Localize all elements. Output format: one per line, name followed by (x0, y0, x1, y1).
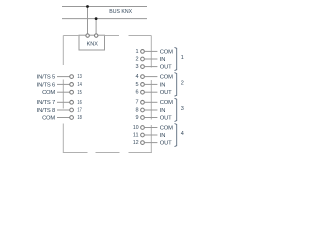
svg-text:OUT: OUT (160, 115, 172, 121)
svg-text:1: 1 (181, 55, 184, 61)
svg-text:COM: COM (160, 49, 173, 55)
svg-text:13: 13 (77, 74, 81, 80)
svg-text:IN: IN (160, 133, 165, 139)
svg-text:1: 1 (136, 49, 139, 55)
svg-text:3: 3 (181, 106, 184, 112)
svg-text:COM: COM (160, 125, 173, 131)
svg-text:9: 9 (136, 115, 139, 121)
svg-text:6: 6 (136, 90, 139, 96)
svg-text:OUT: OUT (160, 90, 172, 96)
svg-text:IN/TS 8: IN/TS 8 (37, 108, 55, 114)
svg-text:OUT: OUT (160, 141, 172, 147)
svg-text:COM: COM (160, 75, 173, 81)
svg-text:COM: COM (42, 115, 55, 121)
svg-text:COM: COM (42, 90, 55, 96)
svg-text:8: 8 (136, 107, 139, 113)
svg-text:IN/TS 6: IN/TS 6 (37, 82, 55, 88)
svg-text:4: 4 (136, 74, 139, 80)
svg-text:11: 11 (133, 132, 139, 138)
svg-text:17: 17 (77, 108, 81, 114)
svg-text:IN/TS 7: IN/TS 7 (37, 100, 55, 106)
svg-text:IN: IN (160, 82, 165, 88)
svg-text:7: 7 (136, 100, 139, 106)
svg-text:16: 16 (77, 100, 81, 106)
svg-text:OUT: OUT (160, 65, 172, 71)
svg-text:12: 12 (133, 140, 139, 146)
svg-text:2: 2 (181, 80, 184, 86)
svg-text:BUS KNX: BUS KNX (109, 9, 132, 15)
svg-text:14: 14 (77, 82, 81, 88)
svg-text:4: 4 (181, 131, 184, 137)
svg-text:IN: IN (160, 108, 165, 114)
svg-text:IN/TS 5: IN/TS 5 (37, 75, 55, 81)
svg-text:18: 18 (77, 115, 81, 121)
svg-text:KNX: KNX (87, 42, 99, 48)
svg-text:5: 5 (136, 82, 139, 88)
svg-text:COM: COM (160, 100, 173, 106)
svg-text:2: 2 (136, 56, 139, 62)
svg-text:15: 15 (77, 90, 81, 96)
svg-text:IN: IN (160, 57, 165, 63)
svg-text:3: 3 (136, 64, 139, 70)
svg-text:10: 10 (133, 125, 139, 131)
